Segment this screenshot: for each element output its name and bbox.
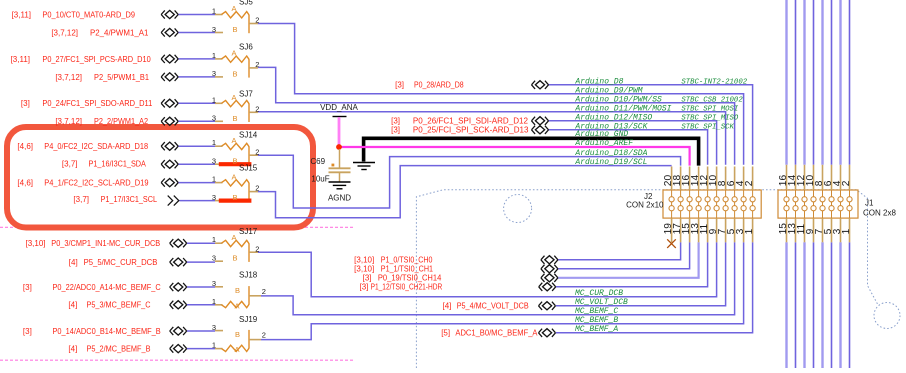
svg-text:3: 3 (212, 114, 216, 123)
J2 pin 19 stub (671, 218, 673, 242)
svg-text:P0_3/CMP1_IN1-MC_CUR_DCB: P0_3/CMP1_IN1-MC_CUR_DCB (51, 239, 160, 248)
wire P2_4 row to SJ5 pin3 (178, 32, 215, 34)
connector J2 CON 2x10 (626, 190, 761, 218)
wire P1_16 row to SJ14 pin3 (178, 163, 215, 165)
svg-text:A: A (232, 172, 237, 181)
J2 pin 12 stub (707, 167, 709, 191)
wire pink VDD_ANA stub (338, 117, 341, 146)
J2 pin 17 stub (680, 218, 682, 242)
J1 pin 12 stub (804, 165, 806, 190)
J1 pin 2 stub (849, 165, 851, 190)
label P1_17/I3C1_SCL (73, 195, 157, 204)
wire J1 pin 6 top vertical (831, 0, 833, 165)
wire J1 pin 1 bottom vertical (849, 242, 851, 368)
label P0_19/TSI0_CH14 (363, 274, 442, 283)
ground symbol GND (353, 163, 375, 170)
svg-text:A: A (235, 345, 240, 354)
svg-text:[4]: [4] (442, 302, 451, 311)
svg-text:1: 1 (212, 235, 216, 244)
label P0_26/FC1_SPI_SDI-ARD_D12 (391, 117, 528, 126)
svg-text:MC_BEMF_A: MC_BEMF_A (575, 325, 618, 334)
label P5_2/MC_BEMF_B (68, 345, 150, 354)
wire J1 pin 3 bottom vertical (839, 242, 841, 368)
svg-text:SJ17: SJ17 (239, 227, 258, 236)
svg-text:[3,7]: [3,7] (62, 160, 78, 169)
svg-text:P0_24/FC1_SPI_SDO-ARD_D11: P0_24/FC1_SPI_SDO-ARD_D11 (42, 99, 152, 108)
J1 pin 9 stub (813, 218, 815, 242)
wire P1_17 row to SJ15 pin3 (179, 200, 215, 202)
label P0_22/ADC0_A14-MC_BEMF_C (23, 283, 161, 292)
off-page connector P0_22 (170, 283, 187, 291)
svg-text:1: 1 (212, 297, 216, 306)
solder jumper SJ14 (212, 131, 260, 166)
J2 pin 5 stub (734, 218, 736, 242)
svg-text:3: 3 (212, 279, 216, 288)
J2 pin 11 stub (707, 218, 709, 242)
J1 pin 4 stub (840, 165, 842, 190)
svg-text:B: B (233, 193, 238, 202)
wire SJ14 pin2 to Arduino_D18 net (258, 155, 681, 208)
svg-text:Arduino_D19/SCL: Arduino_D19/SCL (574, 158, 647, 167)
svg-text:2: 2 (255, 104, 259, 113)
wire P5_5 row to SJ17 pin3 (187, 261, 215, 263)
J2 pin 9 stub (716, 218, 718, 242)
svg-text:CON 2x8: CON 2x8 (863, 209, 896, 218)
label ADC1_B0/MC_BEMF_A (441, 329, 538, 338)
svg-text:[3,7,12]: [3,7,12] (55, 117, 82, 126)
J2 pin 7 stub (725, 218, 727, 242)
wire P5_2 row to SJ19 pin1 (187, 348, 215, 350)
supply symbol VDD_ANA (320, 103, 358, 116)
svg-text:STBC_SPI_MISO: STBC_SPI_MISO (681, 114, 739, 122)
label P5_3/MC_BEMF_C (68, 301, 150, 310)
svg-text:P0_26/FC1_SPI_SDI-ARD_D12: P0_26/FC1_SPI_SDI-ARD_D12 (413, 117, 529, 126)
svg-text:[3]: [3] (395, 81, 404, 90)
svg-text:A: A (232, 136, 237, 145)
svg-text:A: A (235, 301, 240, 310)
svg-text:SJ15: SJ15 (239, 163, 258, 172)
svg-text:SJ14: SJ14 (239, 131, 258, 140)
wire P0_27 row to SJ6 pin1 (178, 58, 215, 60)
off-page connector P0_24 (161, 99, 178, 107)
svg-text:P0_25/FCI_SPI_SCK-ARD_D13: P0_25/FCI_SPI_SCK-ARD_D13 (413, 126, 529, 135)
off-page connector P5_4 (539, 302, 556, 310)
J1 pin 1 stub (849, 218, 851, 242)
wire SJ5 pin2 to Arduino_D9 net (258, 24, 744, 165)
label P1_0/TSI0_CH0 (354, 256, 433, 265)
solder jumper SJ18 (212, 271, 266, 311)
wire J1 pin 11 bottom vertical (803, 242, 805, 368)
svg-text:B: B (235, 330, 240, 339)
svg-text:[3,11]: [3,11] (11, 55, 30, 64)
label P1_1/TSI0_CH1 (354, 265, 433, 274)
svg-text:[3]: [3] (359, 283, 368, 292)
svg-text:P5_2/MC_BEMF_B: P5_2/MC_BEMF_B (87, 345, 151, 354)
red highlight rounded rectangle around I2C jumpers (7, 127, 313, 228)
svg-text:2: 2 (744, 180, 755, 186)
svg-text:[3]: [3] (363, 274, 372, 283)
svg-text:B: B (235, 286, 240, 295)
off-page connector P2_4 (161, 28, 178, 36)
svg-text:P0_27/FC1_SPI_PCS-ARD_D10: P0_27/FC1_SPI_PCS-ARD_D10 (42, 55, 151, 64)
J1 pin 11 stub (804, 218, 806, 242)
wire P4_1 row to SJ15 pin1 (178, 182, 215, 184)
wire SJ18 pin2 MC_BEMF_C net (261, 242, 735, 314)
svg-text:P4_0/FC2_I2C_SDA-ARD_D18: P4_0/FC2_I2C_SDA-ARD_D18 (44, 142, 148, 151)
label P0_28/ARD_D8 (395, 81, 464, 90)
svg-text:2: 2 (255, 60, 259, 69)
J2 pin 13 stub (698, 218, 700, 242)
label P2_2/PWM1_A2 (55, 117, 148, 126)
off-page connector P1_1 (541, 265, 558, 273)
svg-text:P2_5/PWM1_B1: P2_5/PWM1_B1 (94, 73, 150, 82)
svg-text:P0_22/ADC0_A14-MC_BEMF_C: P0_22/ADC0_A14-MC_BEMF_C (53, 283, 161, 292)
off-page connector P2_2 (161, 117, 178, 125)
svg-text:P5_3/MC_BEMF_C: P5_3/MC_BEMF_C (87, 301, 151, 310)
svg-text:A: A (232, 93, 237, 102)
wire J1 pin 15 bottom vertical (785, 242, 787, 368)
J2 pin 18 stub (680, 167, 682, 191)
svg-text:Arduino_D12/MISO: Arduino_D12/MISO (574, 113, 652, 122)
wire TSI0_CH0 net (558, 242, 681, 259)
wire J1 pin 9 bottom vertical (813, 242, 815, 368)
svg-text:[3]: [3] (23, 283, 32, 292)
svg-text:P1_0/TSI0_CH0: P1_0/TSI0_CH0 (381, 256, 433, 265)
wire P5_3 row to SJ18 pin1 (187, 304, 215, 306)
svg-text:B: B (233, 25, 238, 34)
off-page connector P0_26 (532, 117, 549, 125)
board outline dotted hole left (504, 195, 532, 223)
svg-text:[3,10]: [3,10] (354, 265, 374, 274)
svg-text:[3]: [3] (21, 99, 30, 108)
junction node VDD_ANA (336, 144, 342, 150)
svg-text:P0_14/ADC0_B14-MC_BEMF_B: P0_14/ADC0_B14-MC_BEMF_B (53, 327, 161, 336)
svg-text:P1_12/TSI0_CH21-HDR: P1_12/TSI0_CH21-HDR (371, 283, 443, 292)
board outline dotted top edge (416, 190, 877, 368)
no-connect X on J2 pin 19 (667, 239, 676, 248)
J2 pin 6 stub (734, 167, 736, 191)
svg-text:J1: J1 (865, 199, 874, 208)
svg-text:A: A (232, 4, 237, 13)
label P2_5/PWM1_B1 (55, 73, 149, 82)
svg-text:B: B (233, 157, 238, 166)
svg-text:Arduino_GND: Arduino_GND (574, 130, 628, 139)
svg-text:C69: C69 (310, 157, 325, 166)
J2 pin 10 stub (716, 167, 718, 191)
J1 pin 16 stub (786, 165, 788, 190)
svg-text:1: 1 (212, 175, 216, 184)
label P4_0/FC2_I2C_SDA-ARD_D18 (17, 142, 148, 151)
svg-text:MC_BEMF_C: MC_BEMF_C (575, 307, 618, 316)
svg-text:P1_16/I3C1_SDA: P1_16/I3C1_SDA (89, 160, 147, 169)
solder jumper SJ19 (212, 315, 266, 354)
svg-text:Arduino_D11/PWM/MOSI: Arduino_D11/PWM/MOSI (574, 104, 671, 113)
svg-text:Arduino_D10/PWM/SS: Arduino_D10/PWM/SS (574, 95, 662, 104)
J1 pin 5 stub (831, 218, 833, 242)
svg-text:STBC_CSB_21002: STBC_CSB_21002 (681, 96, 743, 104)
off-page connector P0_25 (532, 126, 549, 134)
off-page connector ADC1_B0 (539, 329, 556, 337)
wire Arduino_GND thick black net (364, 138, 699, 165)
label P5_4/MC_VOLT_DCB (442, 302, 528, 311)
wire TSI0_CH14 net (558, 242, 699, 277)
label P2_4/PWM1_A1 (51, 28, 149, 37)
J2 pin 2 stub (752, 167, 754, 191)
J2 pin 4 stub (743, 167, 745, 191)
wire J1 pin 5 bottom vertical (831, 242, 833, 368)
J1 pin 8 stub (822, 165, 824, 190)
wire J1 pin 12 top vertical (803, 0, 805, 165)
solder jumper SJ5 (212, 0, 260, 34)
SJ15 closed jumper B (red bar) (219, 199, 252, 203)
label P0_10/CT0_MAT0-ARD_D9 (12, 10, 136, 19)
svg-text:SJ19: SJ19 (239, 315, 258, 324)
wire P4_0 row to SJ14 pin1 (178, 145, 215, 147)
svg-text:2: 2 (255, 147, 259, 156)
svg-text:Arduino_D8: Arduino_D8 (574, 77, 623, 86)
svg-text:2: 2 (255, 244, 259, 253)
svg-text:P4_1/FC2_I2C_SCL-ARD_D19: P4_1/FC2_I2C_SCL-ARD_D19 (44, 179, 149, 188)
off-page connector P2_5 (161, 73, 178, 81)
wire P0_22 row to SJ18 pin3 (187, 286, 215, 288)
svg-text:3: 3 (212, 25, 216, 34)
svg-text:3: 3 (212, 193, 216, 202)
off-page connector P1_0 (541, 256, 558, 264)
svg-text:SJ6: SJ6 (239, 43, 253, 52)
wire J1 pin 4 top vertical (839, 0, 841, 165)
J2 pin 15 stub (689, 218, 691, 242)
svg-text:MC_CUR_DCB: MC_CUR_DCB (575, 289, 623, 298)
off-page connector P5_3 (170, 301, 187, 309)
J1 pin 3 stub (840, 218, 842, 242)
svg-text:[3]: [3] (391, 117, 400, 126)
svg-text:Arduino_D18/SDA: Arduino_D18/SDA (574, 149, 647, 158)
connector J1 CON 2x8 (778, 190, 896, 218)
wire TSI0_CH21 net (556, 242, 708, 286)
svg-text:B: B (233, 69, 238, 78)
svg-text:CON 2x10: CON 2x10 (626, 201, 664, 210)
wire SJ6 pin2 to Arduino_D10 net (258, 67, 735, 164)
off-page connector P0_14 (170, 327, 187, 335)
svg-text:2: 2 (841, 180, 852, 186)
J2 pin 14 stub (698, 167, 700, 191)
off-page connector P4_1 (161, 179, 178, 187)
wire TSI0_CH1 net (558, 242, 690, 268)
svg-text:ADC1_B0/MC_BEMF_A: ADC1_B0/MC_BEMF_A (455, 329, 538, 338)
J1 pin 14 stub (795, 165, 797, 190)
J2 pin 20 stub (671, 167, 673, 191)
svg-text:1: 1 (841, 228, 852, 234)
wire J1 pin 2 top vertical (849, 0, 851, 165)
svg-text:B: B (233, 114, 238, 123)
wire Arduino_D8 net (549, 85, 753, 165)
svg-text:P1_17/I3C1_SCL: P1_17/I3C1_SCL (101, 195, 158, 204)
svg-text:Arduino_D9/PWM: Arduino_D9/PWM (574, 86, 642, 95)
svg-text:MC_VOLT_DCB: MC_VOLT_DCB (575, 298, 628, 307)
solder jumper SJ15 (212, 163, 260, 202)
svg-text:1: 1 (212, 7, 216, 16)
ground symbol AGND (328, 182, 351, 202)
wire SJ15 pin2 to Arduino_D19 net (258, 166, 672, 218)
svg-text:[3,7,12]: [3,7,12] (51, 28, 78, 37)
svg-text:AGND: AGND (328, 193, 351, 202)
svg-text:[3,10]: [3,10] (25, 239, 45, 248)
off-page connector P0_10 (161, 10, 178, 18)
svg-text:SJ18: SJ18 (239, 271, 258, 280)
svg-text:3: 3 (212, 254, 216, 263)
J1 pin 10 stub (813, 165, 815, 190)
wire J1 pin 14 top vertical (795, 0, 797, 165)
svg-text:A: A (232, 49, 237, 58)
svg-text:1: 1 (212, 138, 216, 147)
svg-text:SJ5: SJ5 (239, 0, 253, 6)
svg-text:P0_10/CT0_MAT0-ARD_D9: P0_10/CT0_MAT0-ARD_D9 (42, 10, 135, 19)
svg-text:10uF: 10uF (311, 175, 329, 184)
svg-text:MC_BEMF_B: MC_BEMF_B (575, 316, 618, 325)
capacitor C69 10uF (310, 149, 350, 184)
label P4_1/FC2_I2C_SCL-ARD_D19 (17, 179, 149, 188)
svg-text:[4,6]: [4,6] (17, 142, 33, 151)
label P1_12/TSI0_CH21-HDR (359, 283, 442, 292)
off-page connector P4_0 (161, 142, 178, 150)
svg-text:P2_2/PWM1_A2: P2_2/PWM1_A2 (94, 117, 149, 126)
svg-text:3: 3 (212, 323, 216, 332)
svg-text:VDD_ANA: VDD_ANA (320, 103, 358, 112)
svg-text:A: A (232, 233, 237, 242)
svg-text:[4,6]: [4,6] (17, 179, 33, 188)
off-page connector P1_17 (chevron) (168, 196, 179, 206)
label P0_27/FC1_SPI_PCS-ARD_D10 (11, 55, 152, 64)
wire Arduino_AREF magenta net (339, 147, 690, 166)
svg-text:1: 1 (212, 51, 216, 60)
svg-text:P0_28/ARD_D8: P0_28/ARD_D8 (414, 81, 464, 90)
board outline dotted hole right (874, 303, 900, 329)
wire J1 pin 10 top vertical (813, 0, 815, 165)
off-page connector P0_28 (532, 81, 549, 89)
svg-text:P2_4/PWM1_A1: P2_4/PWM1_A1 (90, 28, 149, 37)
svg-text:[5]: [5] (441, 329, 450, 338)
wire P0_14 row to SJ19 pin3 (187, 330, 215, 332)
magenta dashed boundary lower (0, 359, 355, 361)
wire Arduino_D12 net (549, 121, 717, 165)
svg-text:[3,7,12]: [3,7,12] (55, 73, 82, 82)
svg-text:[4]: [4] (69, 258, 78, 267)
off-page connector P1_12 (539, 283, 556, 291)
svg-text:Arduino_AREF: Arduino_AREF (574, 139, 633, 148)
svg-text:P1_1/TSI0_CH1: P1_1/TSI0_CH1 (381, 265, 434, 274)
off-page connector P1_16 (161, 160, 178, 168)
wire P2_2 row to SJ7 pin3 (178, 120, 215, 122)
wire J1 pin 16 top vertical (785, 0, 787, 165)
J1 pin 6 stub (831, 165, 833, 190)
svg-text:P5_5/MC_CUR_DCB: P5_5/MC_CUR_DCB (84, 258, 158, 267)
svg-text:STBC-INT2-21002: STBC-INT2-21002 (681, 78, 747, 86)
svg-text:[4]: [4] (68, 301, 77, 310)
label P5_5/MC_CUR_DCB (69, 258, 158, 267)
svg-text:B: B (233, 254, 238, 263)
J1 pin 13 stub (795, 218, 797, 242)
wire P0_10 row to SJ5 pin1 (178, 14, 215, 16)
svg-text:1: 1 (212, 95, 216, 104)
wire J1 pin 13 bottom vertical (795, 242, 797, 368)
svg-text:SJ7: SJ7 (239, 89, 253, 98)
svg-text:[3,11]: [3,11] (12, 10, 31, 19)
svg-text:3: 3 (212, 69, 216, 78)
J2 pin 8 stub (725, 167, 727, 191)
label P0_14/ADC0_B14-MC_BEMF_B (23, 327, 161, 336)
wire P0_3 row to SJ17 pin1 (187, 242, 215, 244)
wire Arduino_D13 net (549, 130, 708, 165)
svg-text:P5_4/MC_VOLT_DCB: P5_4/MC_VOLT_DCB (457, 302, 529, 311)
J1 pin 15 stub (786, 218, 788, 242)
solder jumper SJ17 (212, 227, 260, 263)
svg-text:2: 2 (262, 331, 266, 340)
wire J1 pin 7 bottom vertical (821, 242, 823, 368)
wire MC_VOLT_DCB net (556, 242, 726, 305)
wire P2_5 row to SJ6 pin3 (178, 76, 215, 78)
wire P0_24 row to SJ7 pin1 (178, 102, 215, 104)
solder jumper SJ7 (212, 89, 260, 123)
off-page connector P5_5 (170, 258, 187, 266)
svg-text:STBC_SPI_MOSI: STBC_SPI_MOSI (681, 105, 739, 113)
svg-text:[4]: [4] (68, 345, 77, 354)
off-page connector P0_3 (170, 239, 187, 247)
solder jumper SJ6 (212, 43, 260, 79)
svg-text:2: 2 (255, 16, 259, 25)
J2 pin 1 stub (752, 218, 754, 242)
svg-text:[3,10]: [3,10] (354, 256, 374, 265)
J2 pin 16 stub (689, 167, 691, 191)
off-page connector P5_2 (170, 345, 187, 353)
svg-text:2: 2 (262, 287, 266, 296)
svg-text:STBC_SPI_SCK: STBC_SPI_SCK (681, 123, 734, 131)
svg-text:1: 1 (212, 341, 216, 350)
wire SJ17 pin2 MC_CUR_DCB net (258, 242, 717, 296)
svg-text:3: 3 (212, 157, 216, 166)
SJ14 closed jumper B (red bar) (219, 162, 252, 166)
svg-text:P0_19/TSI0_CH14: P0_19/TSI0_CH14 (378, 274, 442, 283)
label P0_24/FC1_SPI_SDO-ARD_D11 (21, 99, 153, 108)
wire SJ7 pin2 Arduino_D11 net (258, 112, 726, 165)
svg-text:2: 2 (255, 184, 259, 193)
svg-text:1: 1 (744, 228, 755, 234)
svg-text:[3,7]: [3,7] (73, 195, 89, 204)
J2 pin 3 stub (743, 218, 745, 242)
label P1_16/I3C1_SDA (62, 160, 147, 169)
off-page connector P0_19 (541, 274, 558, 282)
off-page connector P0_27 (161, 55, 178, 63)
label P0_3/CMP1_IN1-MC_CUR_DCB (25, 239, 160, 248)
svg-text:[3]: [3] (391, 126, 400, 135)
wire J1 pin 8 top vertical (821, 0, 823, 165)
wire SJ19 pin2 MC_BEMF_B net (261, 242, 744, 339)
label P0_25/FCI_SPI_SCK-ARD_D13 (391, 126, 529, 135)
magenta dashed boundary upper (0, 226, 354, 228)
wire MC_BEMF_A net (556, 242, 753, 332)
svg-text:[3]: [3] (23, 327, 32, 336)
J1 pin 7 stub (822, 218, 824, 242)
